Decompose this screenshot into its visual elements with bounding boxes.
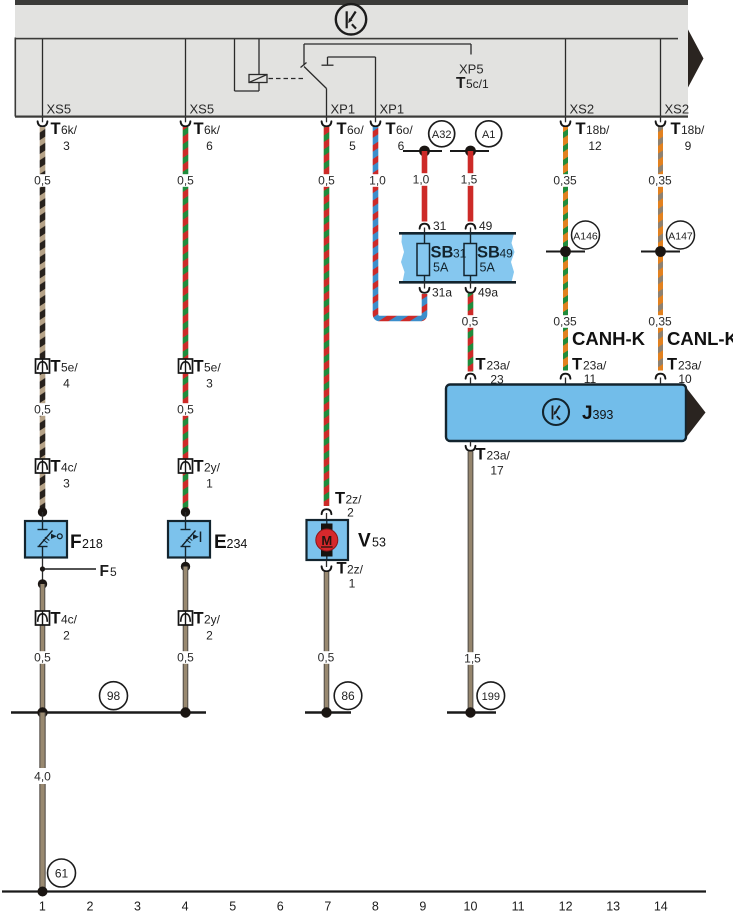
svg-text:6o/: 6o/ <box>347 123 364 137</box>
terminal K symbol (circled K on bus) <box>336 4 366 34</box>
svg-text:5c/1: 5c/1 <box>466 77 489 91</box>
svg-text:8: 8 <box>372 900 379 913</box>
connector T2z/1 at V53 <box>322 560 364 591</box>
svg-text:T: T <box>671 120 681 138</box>
svg-text:0,5: 0,5 <box>318 651 335 665</box>
svg-text:5: 5 <box>229 900 236 913</box>
svg-text:49: 49 <box>479 219 493 233</box>
relay fixed contact to XP1 #2 <box>322 57 376 65</box>
svg-text:3: 3 <box>206 377 213 391</box>
svg-text:0,35: 0,35 <box>648 315 672 329</box>
connector T23a/11 at J393 <box>561 356 607 387</box>
svg-text:F: F <box>70 532 82 553</box>
svg-text:T: T <box>194 458 204 476</box>
svg-text:6: 6 <box>206 139 213 153</box>
svg-text:XS2: XS2 <box>665 102 690 117</box>
connector T6k/6 at bus <box>181 117 221 153</box>
wire brown track4 lower <box>183 567 189 713</box>
svg-text:393: 393 <box>593 408 614 422</box>
svg-text:T: T <box>335 490 345 508</box>
svg-text:199: 199 <box>482 691 500 703</box>
svg-text:23a/: 23a/ <box>487 449 511 463</box>
fuse terminal 31a <box>420 282 453 300</box>
wire 2 red/green (track 4) <box>183 127 189 509</box>
svg-text:2: 2 <box>63 629 70 643</box>
svg-text:T: T <box>194 610 204 628</box>
svg-text:A147: A147 <box>668 230 693 242</box>
svg-text:18b/: 18b/ <box>586 123 610 137</box>
svg-text:J: J <box>582 403 593 424</box>
svg-text:T: T <box>337 120 347 138</box>
fuse SB49 element <box>464 233 513 282</box>
svg-text:T: T <box>194 120 204 138</box>
svg-text:6k/: 6k/ <box>204 123 221 137</box>
ground bar 98 <box>11 707 206 717</box>
label 4,0 <box>31 768 54 784</box>
svg-text:T: T <box>51 358 61 376</box>
junction dot above E234 <box>181 507 190 516</box>
svg-text:234: 234 <box>227 537 248 551</box>
svg-text:1: 1 <box>349 577 356 591</box>
svg-text:T: T <box>386 120 396 138</box>
svg-text:98: 98 <box>107 689 121 703</box>
plug connector T2y/2 <box>179 610 221 643</box>
svg-text:3: 3 <box>63 139 70 153</box>
wire CANL orange/brown (track 14) <box>658 127 663 371</box>
svg-text:0,5: 0,5 <box>177 651 194 665</box>
svg-text:0,5: 0,5 <box>34 651 51 665</box>
svg-text:2y/: 2y/ <box>204 613 221 627</box>
connector T23a/17 at J393 <box>466 441 511 478</box>
junction A146 <box>546 246 585 257</box>
svg-text:2z/: 2z/ <box>346 493 363 507</box>
svg-text:T: T <box>51 120 61 138</box>
svg-text:12: 12 <box>559 900 573 913</box>
wire 3 red/green (track 7) <box>324 127 330 506</box>
svg-text:1,0: 1,0 <box>413 173 430 187</box>
svg-text:31a: 31a <box>432 286 452 300</box>
svg-text:A32: A32 <box>432 129 452 141</box>
svg-text:1,0: 1,0 <box>369 174 386 188</box>
plug connector T4c/3 <box>36 458 78 491</box>
plug connector T5e/3 <box>179 358 222 391</box>
control unit J393 <box>446 385 686 442</box>
svg-text:5: 5 <box>349 139 356 153</box>
svg-text:31: 31 <box>433 219 447 233</box>
junction line A32 <box>403 146 442 157</box>
fuse box (SB panel) <box>399 233 516 282</box>
svg-text:T: T <box>476 356 486 374</box>
svg-text:53: 53 <box>372 536 386 550</box>
svg-text:3: 3 <box>134 900 141 913</box>
svg-text:4c/: 4c/ <box>61 613 78 627</box>
connector T18b/12 at bus <box>561 117 610 153</box>
svg-text:1: 1 <box>206 477 213 491</box>
wire red A32 to fuse SB31 <box>422 151 428 222</box>
connector T6o/6 at bus <box>371 117 414 153</box>
svg-text:SB: SB <box>477 244 500 262</box>
label XP5 / T5c/1 <box>456 62 489 93</box>
svg-text:0,35: 0,35 <box>553 174 577 188</box>
connector T6k/3 at bus <box>38 117 78 153</box>
svg-text:XS2: XS2 <box>570 102 595 117</box>
wire drop XS2 #1 inside band <box>565 39 567 116</box>
svg-text:11: 11 <box>512 900 525 913</box>
svg-text:6o/: 6o/ <box>396 123 413 137</box>
svg-text:1: 1 <box>39 900 46 913</box>
connector T18b/9 at bus <box>656 117 705 153</box>
junction dot below F218 <box>38 579 47 588</box>
wire 1 black/beige (track 1) <box>40 127 46 509</box>
junction line A1 <box>450 146 489 157</box>
svg-text:218: 218 <box>82 537 103 551</box>
relay switch arm <box>304 67 327 89</box>
svg-text:6: 6 <box>277 900 284 913</box>
svg-text:4: 4 <box>63 377 70 391</box>
svg-text:49a: 49a <box>478 286 498 300</box>
svg-text:F: F <box>100 563 109 580</box>
svg-text:0,5: 0,5 <box>318 174 335 188</box>
svg-text:2: 2 <box>87 900 94 913</box>
plug connector T4c/2 <box>36 610 78 643</box>
line below F218 with F5 tap <box>40 558 96 585</box>
svg-text:86: 86 <box>341 689 355 703</box>
bus bar band <box>15 0 689 118</box>
svg-text:0,5: 0,5 <box>177 403 194 417</box>
svg-text:0,5: 0,5 <box>34 174 51 188</box>
J393 arrow <box>687 388 706 437</box>
svg-text:5e/: 5e/ <box>61 361 78 375</box>
ground node 86 <box>334 682 362 710</box>
svg-text:T: T <box>667 356 677 374</box>
svg-text:61: 61 <box>55 867 69 881</box>
fuse terminal 31 <box>420 219 447 233</box>
plug connector T2y/1 <box>179 458 221 491</box>
wire green/red 49a to J393 <box>468 294 474 372</box>
junction A147 <box>641 246 680 257</box>
svg-text:0,35: 0,35 <box>648 174 672 188</box>
svg-text:18b/: 18b/ <box>681 123 705 137</box>
ground node 199 <box>477 682 505 710</box>
svg-text:4c/: 4c/ <box>61 461 78 475</box>
svg-text:2: 2 <box>206 629 213 643</box>
svg-text:23a/: 23a/ <box>678 359 702 373</box>
svg-text:0,5: 0,5 <box>34 403 51 417</box>
svg-text:XS5: XS5 <box>190 102 215 117</box>
svg-text:3: 3 <box>63 477 70 491</box>
svg-text:CANL-K: CANL-K <box>667 328 733 349</box>
svg-text:E: E <box>214 532 227 553</box>
wire brown track7 lower <box>324 572 330 712</box>
svg-text:T: T <box>576 120 586 138</box>
svg-text:T: T <box>476 446 486 464</box>
svg-text:17: 17 <box>490 464 504 478</box>
svg-text:T: T <box>337 560 347 578</box>
svg-text:CANH-K: CANH-K <box>572 328 646 349</box>
fuse SB31 element <box>417 233 467 282</box>
wire 4 blue/red L-shape (track 8) <box>376 127 425 319</box>
svg-text:7: 7 <box>324 900 331 913</box>
plug connector T5e/4 <box>36 358 79 391</box>
wire brown track1 lower <box>40 584 46 712</box>
svg-text:5: 5 <box>110 565 117 579</box>
connector T2z/2 at V53 <box>322 490 363 521</box>
bus arrow (right) <box>688 30 704 88</box>
svg-text:4,0: 4,0 <box>34 770 51 784</box>
svg-text:SB: SB <box>431 244 454 262</box>
svg-text:XS5: XS5 <box>47 102 72 117</box>
relay switch contact (XP5 side) <box>301 44 472 68</box>
node A32 <box>429 121 455 147</box>
relay actuation dashed link <box>269 78 304 80</box>
junction dot below E234 <box>181 558 190 572</box>
svg-text:A1: A1 <box>482 129 495 141</box>
svg-text:T: T <box>51 610 61 628</box>
svg-text:T: T <box>456 75 466 92</box>
ground node 98 <box>100 682 128 710</box>
connector T6o/5 at bus <box>322 117 365 153</box>
svg-text:2: 2 <box>347 506 354 520</box>
wire drop XP1 #1 inside band <box>326 89 328 117</box>
relay coil box <box>249 75 267 83</box>
wire drop XS5 #2 inside band <box>185 39 187 116</box>
svg-text:23a/: 23a/ <box>487 359 511 373</box>
svg-text:T: T <box>572 356 582 374</box>
svg-text:1,5: 1,5 <box>464 652 481 666</box>
svg-text:49: 49 <box>500 247 514 261</box>
ground node 61 <box>48 859 76 887</box>
connector T23a/23 at J393 <box>466 356 511 387</box>
node A1 <box>476 121 502 147</box>
svg-text:A146: A146 <box>573 230 598 242</box>
svg-text:9: 9 <box>419 900 426 913</box>
svg-text:2y/: 2y/ <box>204 461 221 475</box>
relay coil branch inside band <box>235 39 260 91</box>
svg-text:13: 13 <box>606 900 620 913</box>
ground rail bottom <box>2 887 706 897</box>
svg-text:6k/: 6k/ <box>61 123 78 137</box>
svg-text:XP1: XP1 <box>331 102 356 117</box>
junction dot above F218 <box>38 507 47 516</box>
svg-text:5e/: 5e/ <box>204 361 221 375</box>
motor V53 <box>307 520 349 560</box>
svg-text:XP1: XP1 <box>380 102 405 117</box>
fuse terminal 49a <box>466 282 499 300</box>
track numbers 1-14 <box>39 900 668 913</box>
svg-text:T: T <box>194 358 204 376</box>
svg-text:4: 4 <box>182 900 189 913</box>
svg-text:T: T <box>51 458 61 476</box>
svg-text:10: 10 <box>464 900 478 913</box>
svg-text:0,35: 0,35 <box>553 315 577 329</box>
svg-text:1,5: 1,5 <box>461 173 478 187</box>
wire red A1 to fuse SB49 <box>468 151 474 222</box>
svg-text:23a/: 23a/ <box>583 359 607 373</box>
svg-text:5A: 5A <box>480 261 496 275</box>
switch E234 <box>168 521 210 558</box>
wire drop XS5 #1 inside band <box>42 39 44 116</box>
svg-text:14: 14 <box>654 900 668 913</box>
fuse terminal 49 <box>466 219 493 233</box>
svg-text:12: 12 <box>588 139 602 153</box>
wire CANH orange/green (track 12) <box>563 127 568 371</box>
wire brown track10 lower <box>468 452 474 713</box>
svg-text:0,5: 0,5 <box>462 315 479 329</box>
svg-text:5A: 5A <box>433 261 449 275</box>
ground bar 86 <box>305 707 351 717</box>
node A147 <box>667 221 695 249</box>
svg-text:M: M <box>321 533 332 548</box>
wire drop XS2 #2 inside band <box>660 39 662 116</box>
node A146 <box>572 221 600 249</box>
svg-text:2z/: 2z/ <box>347 563 364 577</box>
svg-text:0,5: 0,5 <box>177 174 194 188</box>
wire brown 4.0 to ground 61 <box>39 713 45 892</box>
connector T23a/10 at J393 <box>656 356 702 387</box>
svg-text:V: V <box>358 531 371 552</box>
switch F218 <box>25 521 67 558</box>
ground bar 199 <box>447 707 496 717</box>
svg-text:9: 9 <box>685 139 692 153</box>
wire drop XP1 #2 inside band <box>375 57 377 116</box>
